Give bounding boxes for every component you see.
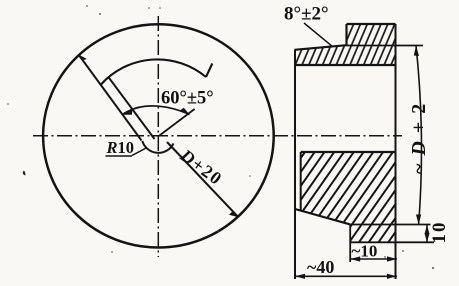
~40 left arrow [295,274,305,279]
top hatched area (flange band + boss) [295,24,396,65]
boss left edge [345,24,347,46]
svg-text:R10: R10 [106,138,135,157]
outer circle of lap disc [43,24,274,247]
10 top arrow (outside, pointing down) [425,225,430,234]
body left edge + dim extension [294,50,296,279]
10 dimension line [426,225,428,242]
60 deg angle dimension arc [122,106,190,115]
angle arc right arrow [180,108,190,115]
svg-text:~D+2: ~D+2 [408,96,430,174]
D+2 top arrow [414,46,419,57]
bottom hatched area (body + lower band) [295,152,396,242]
~10 right arrow [387,256,397,261]
vertical centerline [157,16,159,257]
svg-text:D+20: D+20 [176,145,227,190]
svg-text:~10: ~10 [352,242,378,261]
slot edge line A (upper-left, to R10 arc) [79,55,142,141]
body right edge + dim extension [395,24,397,279]
tick at right end of fan arc [206,64,212,78]
D+2 dimension line [416,46,422,225]
slot edge line B (fan arc to center) [108,77,155,140]
lower band top line + D+2 bottom extension [350,224,430,226]
arrow at circle end of D+20 [229,211,239,217]
~10 left arrow [350,256,360,261]
angle arc left arrow [122,110,132,115]
tapered top surface 8deg [295,45,347,50]
boss top edge [347,23,396,25]
~40 right arrow [387,274,397,279]
lower band bottom line + 10 extension [350,241,434,243]
recess edge (hatch left boundary) [300,152,302,211]
D+2 bottom arrow [416,215,421,225]
fan sector arc [101,59,207,85]
arrow at top-left end of line A [79,55,88,61]
10 bottom arrow (outside, pointing up) [425,233,430,242]
leader line for 8deg label [304,23,333,47]
svg-text:60°±5°: 60°±5° [161,89,214,109]
paper specks [23,171,26,176]
bottom tapered surface [295,209,350,224]
D+20 dimension line [167,142,239,217]
svg-text:~40: ~40 [307,257,334,277]
horizontal centerline [33,135,402,137]
bore bottom line [301,151,396,153]
svg-text:8°±2°: 8°±2° [284,4,329,25]
svg-text:10: 10 [429,221,450,244]
boss base line + D+2 top extension [347,45,424,47]
~10 dimension line [350,258,397,260]
~40 dimension line [295,275,397,277]
R10 small arc at center [142,141,173,153]
R10 leader line [132,148,147,156]
lower band left edge + ~10 extension [349,224,351,262]
radial line of 60 deg angle (up-right) [159,109,195,136]
bore top line [295,64,396,66]
R10 underline [106,155,133,157]
